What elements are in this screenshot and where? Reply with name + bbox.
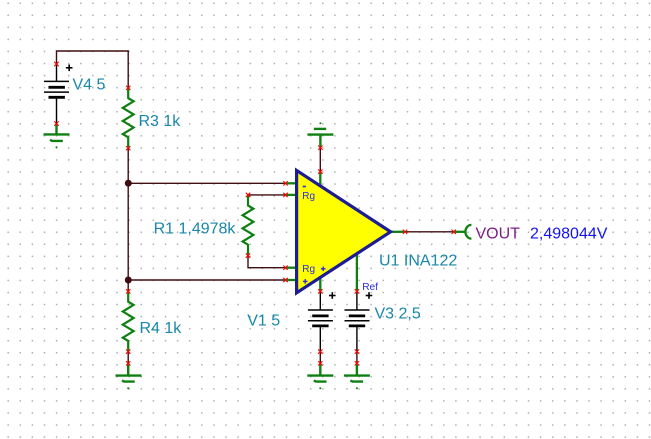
pin cross R4 bottom [126,349,130,353]
wire R4 bottom to ground pin [127,352,129,364]
op-amp pin label plus (near Rg bottom) [321,267,326,272]
pin cross R4 top [126,289,130,293]
svg-text:Rg: Rg [302,191,315,202]
op-amp pin label plus (bottom left) [303,279,308,284]
pin cross V1 top [318,289,322,293]
pin cross ground below V3 [355,361,359,365]
pin cross U1 Rg top [283,193,287,197]
svg-text:R1 1,4978k: R1 1,4978k [154,221,237,238]
pin cross V4 top [54,62,58,66]
pin cross R1 top [246,193,250,197]
pin cross U1 V+ supply [318,169,322,173]
pin cross V3 top (Ref) [355,289,359,293]
battery V3 [345,291,373,351]
svg-text:Rg: Rg [302,264,315,275]
pin cross V4 bottom [54,121,58,125]
resistor R3 [123,88,134,149]
svg-text:R3 1k: R3 1k [139,113,182,130]
pin cross VOUT terminal [452,230,456,234]
pin cross U1 output [403,230,407,234]
pin cross R1 bottom [246,253,250,257]
ground under R4 [116,363,142,381]
pin cross ground below R4 [126,361,130,365]
wire R3 bottom to R4 top (left bus) [127,148,129,291]
op-amp U1 pin stub: V- supply [319,277,321,292]
wire R1 bottom to Rg2 pin [248,256,286,268]
wire V3 bottom to ground pin [356,352,358,364]
wire junction A to op-amp minus pin [128,182,285,184]
wire R1 top to Rg1 pin [248,194,286,196]
svg-text:VOUT: VOUT [476,225,521,242]
wire V1 bottom to ground pin [319,352,321,364]
svg-text:R4 1k: R4 1k [140,320,183,337]
resistor R4 [123,291,134,352]
op-amp pin label minus [303,186,306,188]
pin cross V3 bottom [355,349,359,353]
op-amp U1 body [297,170,391,292]
pin cross V1 bottom [318,349,322,353]
op-amp U1 pin stub: inverting input [286,182,298,184]
op-amp U1 pin stub: Rg top [286,194,298,196]
svg-text:Ref: Ref [362,282,378,293]
ground under V4 [44,124,70,141]
svg-text:V1 5: V1 5 [247,313,280,330]
svg-text:2,498044V: 2,498044V [530,225,608,242]
ground under V3 [344,363,370,381]
pin cross ground below V1 [318,361,322,365]
op-amp U1 pin stub: Rg bottom [286,267,298,269]
node junction A [125,180,132,187]
ground under V1 [307,363,333,381]
output terminal VOUT [454,225,472,239]
pin cross R3 bottom [126,146,130,150]
wire junction B to op-amp plus pin [128,279,285,281]
svg-text:U1 INA122: U1 INA122 [379,253,457,270]
svg-text:V4 5: V4 5 [73,77,106,94]
op-amp U1 pin stub: V+ supply [319,172,321,187]
battery V4 [44,64,73,124]
op-amp U1 pin stub: non-inverting input [286,279,298,281]
svg-text:V3 2,5: V3 2,5 [375,305,421,322]
pin cross U1 inverting input [283,181,287,185]
op-amp U1 pin stub: output [391,231,405,233]
pin cross U1 non-inverting input [283,278,287,282]
wire ground to op-amp V+ pin [319,148,321,172]
wire top from V4 to R3 column [57,51,129,88]
pin cross R3 top [126,86,130,90]
battery V1 [308,291,336,351]
pin cross top ground [318,146,322,150]
wire op-amp output to VOUT terminal [405,231,454,233]
resistor R1 [243,195,254,256]
pin cross U1 Rg bottom [283,266,287,270]
node junction B [125,277,132,284]
ground above op-amp (flipped) [307,129,333,148]
op-amp U1 pin stub: Ref [356,254,358,292]
